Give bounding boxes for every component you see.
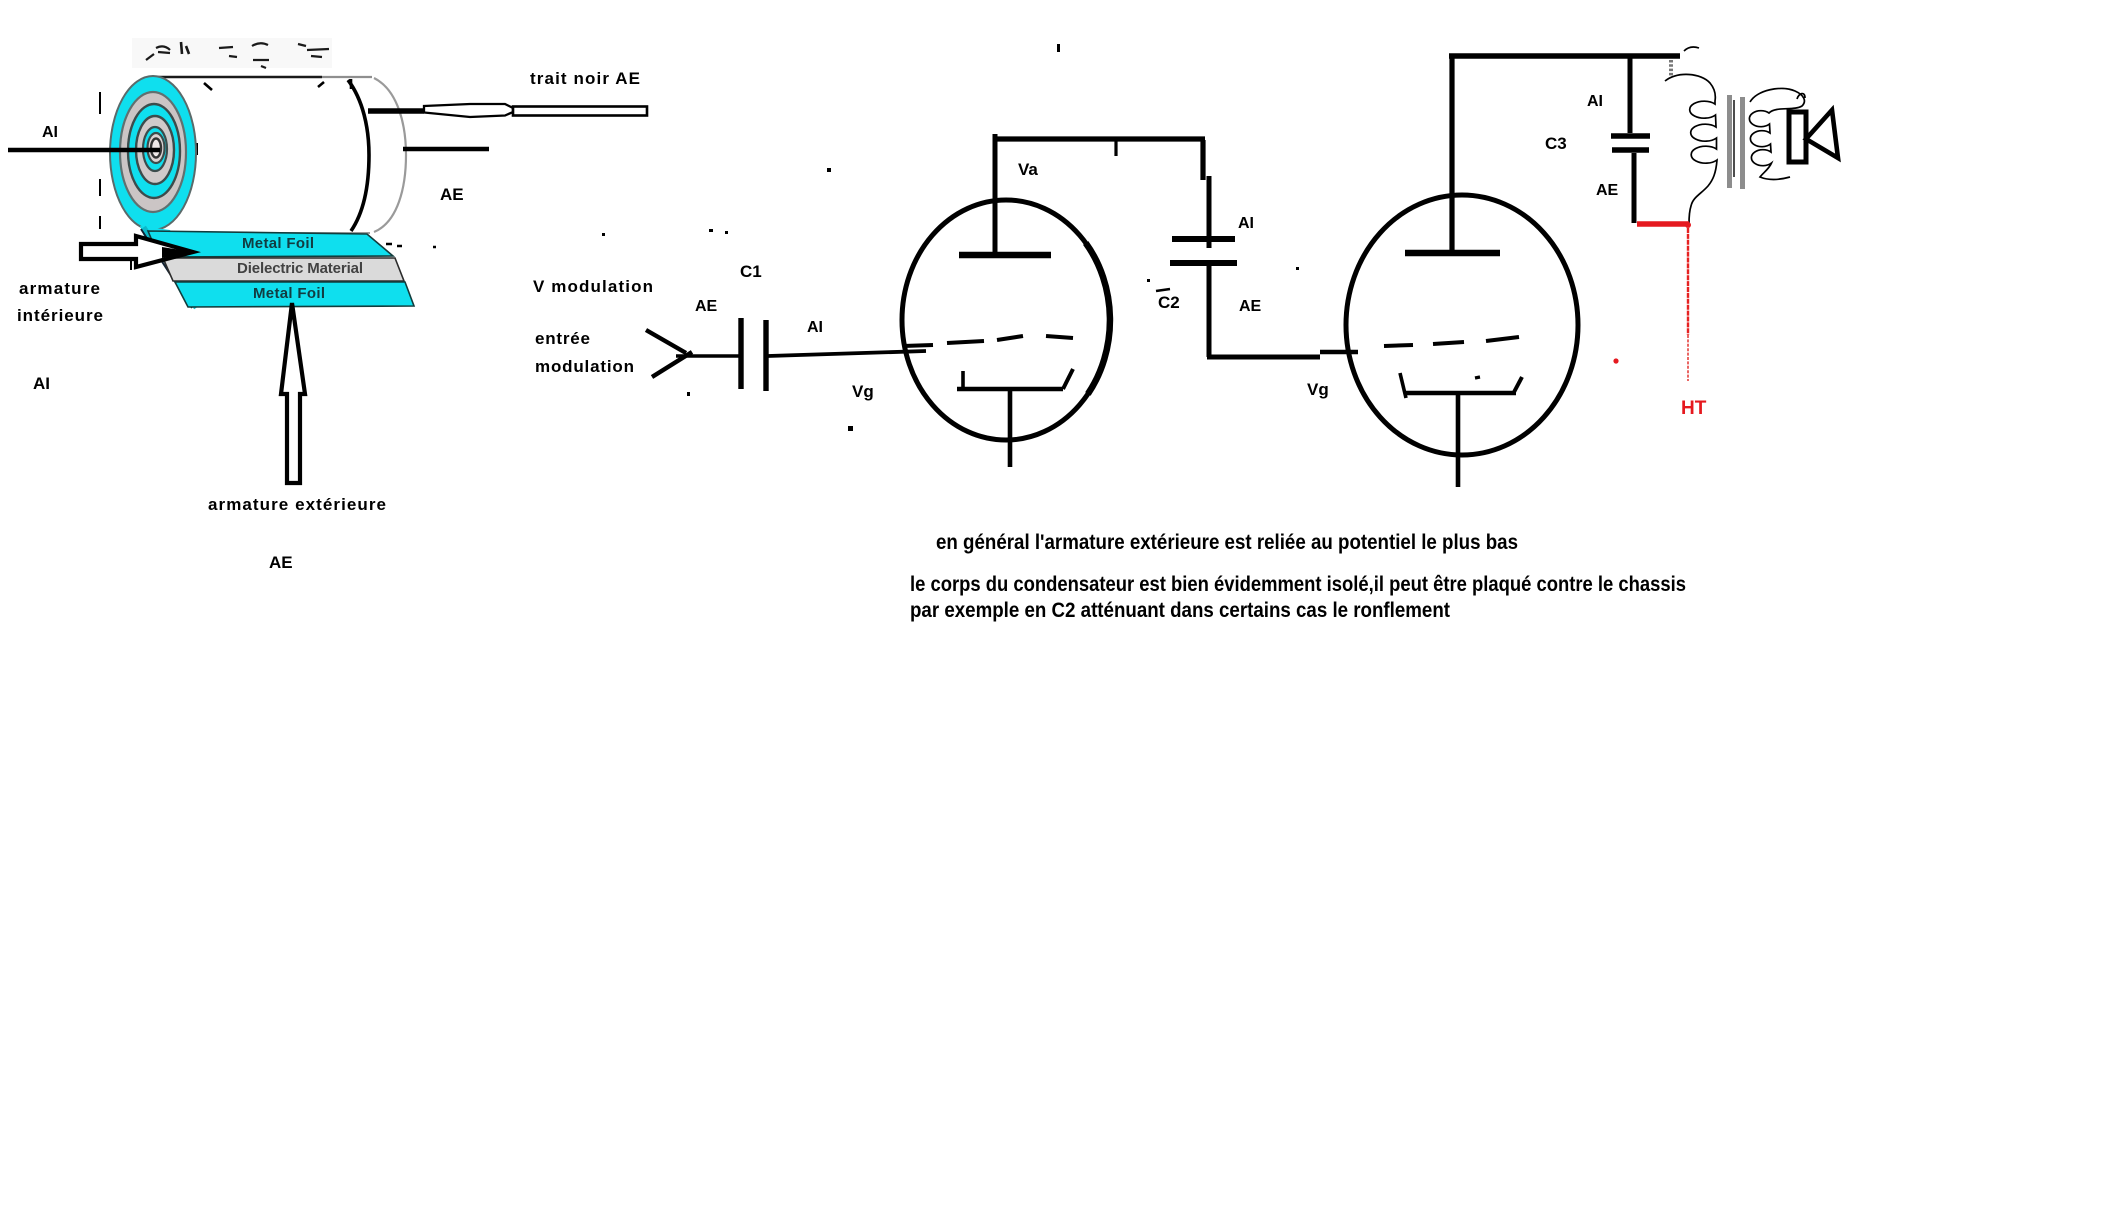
capacitor C3 (1611, 136, 1650, 150)
tube V2 anode lead (1449, 56, 1454, 253)
cyan wedge under roll (140, 226, 190, 257)
svg-text:AE: AE (440, 185, 464, 204)
strip Metal Foil (top) (148, 231, 393, 257)
svg-text:AI: AI (807, 319, 823, 336)
red HT wire vertical (fading) (1687, 228, 1689, 335)
svg-text:AE: AE (695, 298, 718, 315)
rolled foil face (concentric rings) (110, 76, 196, 230)
svg-text:le corps du condensateur est b: le corps du condensateur est bien évidem… (910, 573, 1686, 596)
svg-text:Metal Foil: Metal Foil (253, 285, 325, 302)
svg-text:trait noir AE: trait noir AE (530, 69, 640, 88)
svg-text:en général l'armature extérieu: en général l'armature extérieure est rel… (936, 531, 1518, 554)
transformer primary winding (1665, 47, 1717, 224)
capacitor body (cylinder) (152, 77, 406, 233)
lead wire trait noir (right top) (368, 104, 647, 117)
tube V1 envelope right thick arc (1086, 243, 1110, 394)
svg-text:Metal Foil: Metal Foil (242, 235, 314, 252)
tube V1 anode plate (959, 252, 1051, 258)
svg-text:C1: C1 (740, 262, 762, 281)
svg-text:C2: C2 (1158, 293, 1180, 312)
wire input to C1 (676, 354, 741, 358)
lead wire AI (left) (8, 148, 160, 153)
red dot (1613, 358, 1618, 363)
tube V1 anode lead (993, 134, 998, 255)
tube V2 anode plate (1405, 250, 1500, 256)
tube V1 envelope (902, 200, 1110, 440)
gray smudge tick under top wire (1669, 60, 1673, 76)
tube V2 envelope (1346, 195, 1578, 455)
speaker (1789, 110, 1838, 162)
lead wire AE (right lower) (403, 147, 489, 151)
svg-text:Va: Va (1018, 160, 1038, 179)
tube V2 grid (dashed) (1384, 337, 1519, 346)
transformer core (1727, 95, 1745, 189)
svg-text:AI: AI (1238, 215, 1254, 232)
tube V1 cathode lead (1008, 391, 1013, 467)
svg-text:AI: AI (1587, 93, 1603, 110)
capacitor C1 (741, 318, 766, 391)
strip Dielectric Material (163, 258, 404, 281)
svg-text:AE: AE (1596, 182, 1619, 199)
dashed selection line remnant (100, 92, 197, 270)
stray marks right of strip (386, 244, 436, 247)
wire C1 to tube V1 grid (768, 351, 926, 356)
svg-text:armature: armature (19, 279, 100, 298)
input arrowhead (646, 330, 692, 377)
capacitor C2 (1170, 239, 1237, 263)
svg-text:AI: AI (33, 374, 50, 393)
svg-text:AE: AE (1239, 298, 1262, 315)
arrow to outer foil (vertical arrow) (281, 303, 305, 483)
svg-text:intérieure: intérieure (17, 306, 103, 325)
capacitor C3 leads (1628, 58, 1633, 133)
tube V1 grid (dashed) (903, 336, 1073, 346)
svg-text:Dielectric Material: Dielectric Material (237, 260, 363, 277)
svg-text:Vg: Vg (852, 382, 874, 401)
erased title smudge (132, 38, 332, 68)
svg-text:par exemple en C2 atténuant d: par exemple en C2 atténuant dans certain… (910, 599, 1450, 622)
transformer secondary winding (1749, 88, 1805, 179)
svg-text:entrée: entrée (535, 329, 590, 348)
wire anode V2 to transformer (top run) (1449, 53, 1680, 59)
foil strips stack: left edge diagonal (144, 227, 196, 308)
svg-text:AI: AI (42, 124, 58, 141)
svg-text:HT: HT (1681, 398, 1707, 419)
wire anode V1 to C2 (top run) (993, 139, 1209, 248)
tube V2 cathode lead (1456, 395, 1461, 487)
svg-text:armature extérieure: armature extérieure (208, 495, 386, 514)
strip Metal Foil (bottom) (175, 282, 414, 307)
red HT wire horizontal (1637, 221, 1689, 226)
svg-text:AE: AE (269, 553, 293, 572)
tube V2 cathode (1400, 373, 1522, 398)
svg-text:C3: C3 (1545, 134, 1567, 153)
arrow to inner foil (left horizontal arrow) (81, 236, 193, 267)
svg-text:modulation: modulation (535, 357, 634, 376)
svg-text:Vg: Vg (1307, 380, 1329, 399)
svg-text:V modulation: V modulation (533, 277, 653, 296)
wire C2 to tube V2 grid (1207, 266, 1358, 357)
stray ink dots (602, 44, 1299, 431)
tube V1 cathode (957, 369, 1073, 389)
